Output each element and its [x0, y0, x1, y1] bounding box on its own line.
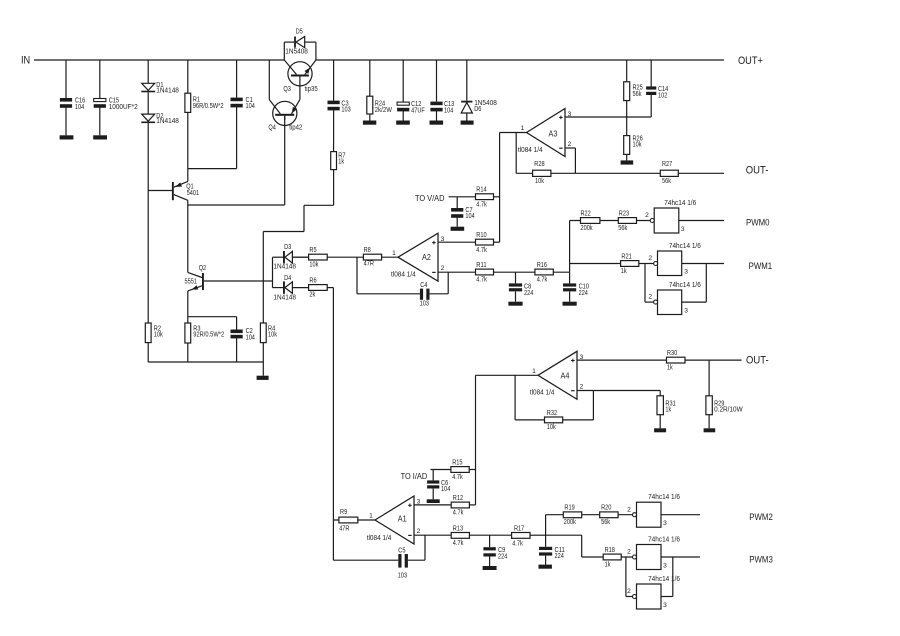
svg-text:2: 2: [627, 549, 631, 556]
ground D6: [461, 121, 474, 125]
ground C15: [93, 135, 107, 139]
wire C15 to ground: [99, 107, 101, 135]
svg-text:3: 3: [417, 499, 421, 506]
svg-text:tl084 1/4: tl084 1/4: [367, 535, 392, 542]
diode D2: [141, 113, 179, 125]
svg-text:200k: 200k: [581, 225, 593, 232]
capacitor C4: [420, 282, 430, 307]
svg-text:2: 2: [441, 265, 445, 272]
svg-text:R28: R28: [534, 161, 544, 168]
wire A2 pin1 row: [292, 256, 398, 258]
wire R24 to ground: [369, 114, 371, 121]
wire C9 to ground: [489, 556, 491, 566]
wire TO V/AD to C7: [456, 197, 458, 208]
ground R31: [654, 428, 666, 432]
svg-text:R14: R14: [476, 187, 486, 194]
wire R6 to A1 column: [327, 287, 333, 289]
wire A1 input column: [332, 288, 334, 561]
svg-text:R22: R22: [581, 210, 591, 217]
svg-text:1k: 1k: [338, 159, 344, 166]
svg-text:1k: 1k: [621, 268, 627, 275]
svg-text:OUT-: OUT-: [746, 165, 769, 177]
svg-text:R11: R11: [476, 262, 486, 269]
inverter U1E PWM3 (74HC14): [627, 536, 680, 569]
svg-text:224: 224: [524, 290, 533, 297]
wire Q1 base node to R2: [147, 191, 149, 324]
wire R29 to ground: [708, 415, 710, 429]
svg-text:2: 2: [580, 384, 584, 391]
wire D5 left leg: [284, 42, 294, 60]
svg-text:tip35: tip35: [305, 86, 318, 93]
wire IN rail to C1: [236, 60, 238, 98]
op-amp A3 plus input mark: [559, 116, 563, 118]
wire C2 to bottom rail: [236, 338, 238, 362]
capacitor C14: [646, 86, 668, 99]
svg-text:TO I/AD: TO I/AD: [401, 472, 428, 481]
svg-text:3: 3: [663, 562, 667, 569]
wire R1 to Q1 emitter node: [187, 112, 189, 168]
svg-text:2: 2: [568, 141, 572, 148]
diode D4: [273, 275, 296, 301]
wire C10 stub: [569, 272, 571, 283]
wire R1-C1 bottom join: [188, 168, 237, 170]
svg-text:D3: D3: [284, 244, 291, 251]
svg-text:R30: R30: [667, 350, 677, 357]
wire R13 to R17: [469, 534, 511, 536]
wire PWM3 parallel input drop: [626, 557, 633, 597]
svg-text:10k: 10k: [268, 332, 277, 339]
op-amp A4 minus input mark: [571, 390, 574, 392]
capacitor C7: [451, 207, 475, 220]
svg-text:103: 103: [398, 572, 407, 579]
op-amp A3: [518, 109, 572, 157]
wire A4 pin3 to OUT-: [577, 359, 742, 361]
ground C7: [451, 227, 465, 231]
resistor R4: [260, 323, 277, 343]
op-amp A2 plus input mark: [432, 242, 436, 244]
svg-text:D4: D4: [284, 275, 291, 282]
wire PWM1 output: [682, 263, 724, 265]
svg-text:R32: R32: [547, 410, 557, 417]
wire IN rail to C16: [65, 60, 67, 98]
capacitor C5: [398, 548, 408, 580]
wire A3 pin1 down to R14/R10: [499, 133, 501, 243]
svg-text:47R: 47R: [364, 261, 374, 268]
svg-text:2: 2: [648, 294, 652, 301]
wire R11 to R16: [494, 271, 535, 273]
wire IN rail to D1: [147, 60, 149, 83]
resistor R5: [309, 247, 328, 268]
transistor Q3: [283, 60, 317, 100]
wire IN rail: [34, 59, 284, 61]
svg-text:56k: 56k: [601, 519, 610, 526]
wire A3 pin1 wire: [500, 132, 527, 134]
svg-text:4.7k: 4.7k: [476, 277, 487, 284]
wire C10 node riser: [569, 221, 571, 273]
wire C11 to ground: [545, 556, 547, 565]
wire Q2 base wire: [204, 280, 273, 282]
wire OUT+ rail to C3: [333, 60, 335, 101]
resistor R16: [535, 262, 553, 283]
wire R7 to R4 node jog: [263, 170, 333, 232]
svg-text:R10: R10: [476, 232, 486, 239]
capacitor C3: [328, 100, 351, 113]
transistor Q1: [172, 169, 199, 205]
svg-text:R13: R13: [453, 525, 463, 532]
svg-text:A1: A1: [398, 514, 407, 524]
svg-text:tip42: tip42: [289, 125, 302, 132]
svg-text:10k: 10k: [309, 261, 318, 268]
wire R10 to A3 vertical: [494, 241, 500, 243]
svg-text:4.7k: 4.7k: [453, 510, 464, 517]
wire C1 to Q1 emitter node: [236, 107, 238, 169]
svg-text:2k: 2k: [309, 292, 315, 299]
svg-text:74hc14 1/6: 74hc14 1/6: [669, 243, 701, 250]
svg-text:4.7k: 4.7k: [453, 540, 464, 547]
resistor R13: [451, 525, 469, 547]
svg-text:2: 2: [648, 255, 652, 262]
wire R22-R23 row: [570, 220, 651, 222]
wire C16 to ground: [65, 107, 67, 135]
svg-text:47R: 47R: [339, 526, 349, 533]
wire OUT+ rail: [316, 59, 724, 61]
capacitor C8: [509, 283, 533, 297]
svg-text:224: 224: [498, 554, 507, 561]
wire OUT+ rail to C13: [436, 60, 438, 102]
wire R32 feedback: [515, 375, 593, 420]
wire C5 feedback bottom: [333, 535, 425, 560]
wire D1 to D2: [147, 92, 149, 114]
svg-text:2: 2: [645, 212, 649, 219]
capacitor C10: [563, 283, 589, 297]
svg-text:R8: R8: [364, 247, 371, 254]
svg-text:1N4148: 1N4148: [156, 118, 179, 125]
resistor R3: [185, 323, 224, 343]
svg-text:200k: 200k: [564, 519, 576, 526]
resistor R23: [618, 210, 636, 232]
wire A3 pin1 to OUT- line: [515, 133, 517, 174]
svg-text:104: 104: [444, 107, 453, 114]
capacitor C1: [231, 97, 255, 110]
svg-text:5551: 5551: [185, 278, 198, 285]
wire A1 pin2 wire: [414, 534, 451, 536]
resistor R9: [339, 509, 358, 533]
svg-text:1: 1: [532, 368, 536, 375]
ground C12: [396, 121, 410, 125]
svg-text:4.7k: 4.7k: [476, 201, 487, 208]
transistor Q2: [185, 265, 207, 291]
svg-text:104: 104: [75, 104, 84, 111]
svg-text:74hc14 1/6: 74hc14 1/6: [664, 200, 696, 207]
svg-text:Q4: Q4: [268, 124, 276, 131]
wire R2 to bottom rail: [147, 343, 149, 362]
diode D6: [461, 100, 497, 113]
svg-text:R12: R12: [453, 495, 463, 502]
wire C8 to ground: [515, 292, 517, 302]
wire bracket to D3: [273, 256, 284, 258]
svg-text:4.7k: 4.7k: [452, 474, 463, 481]
wire A3 pin3 line to R26: [626, 117, 628, 136]
wire R31 stub: [659, 391, 661, 396]
resistor R24: [367, 96, 392, 114]
svg-text:PWM3: PWM3: [749, 554, 773, 564]
inverter U1C PWM1 (74HC14): [648, 282, 700, 315]
wire R17 to C11 node: [530, 534, 546, 536]
svg-text:C4: C4: [420, 282, 427, 289]
resistor R15: [451, 459, 469, 481]
svg-text:R6: R6: [309, 277, 316, 284]
wire PWM0 output: [679, 220, 724, 222]
svg-text:1k: 1k: [665, 407, 671, 414]
svg-text:3: 3: [568, 111, 572, 118]
op-amp A2: [391, 233, 445, 281]
capacitor C2: [231, 328, 255, 341]
op-amp A1: [367, 496, 421, 544]
resistor R25: [624, 82, 643, 101]
svg-text:D6: D6: [474, 106, 481, 113]
wire C8 stub: [515, 272, 517, 283]
svg-text:R15: R15: [452, 459, 462, 466]
wire Q1 collector node to Q2 collector: [187, 205, 189, 272]
wire OUT+ rail to R24: [369, 60, 371, 96]
ground R26: [621, 160, 634, 164]
wire C4 feedback: [357, 257, 448, 294]
resistor R1: [185, 93, 224, 112]
svg-text:92R/0.5W*2: 92R/0.5W*2: [193, 332, 224, 339]
wire R3 to bottom rail: [187, 343, 189, 362]
svg-text:R20: R20: [601, 505, 611, 512]
wire Q1 collector to Q4 base: [188, 116, 285, 205]
svg-text:tl084 1/4: tl084 1/4: [391, 272, 416, 279]
capacitor C11: [539, 547, 565, 560]
svg-text:4.7k: 4.7k: [537, 276, 548, 283]
resistor R20: [600, 505, 618, 527]
svg-text:2: 2: [627, 588, 631, 595]
svg-text:1000UF*2: 1000UF*2: [109, 104, 138, 111]
ground C8: [508, 302, 522, 306]
svg-text:1N4148: 1N4148: [156, 88, 179, 95]
capacitor C6: [427, 480, 450, 493]
svg-text:10k: 10k: [633, 142, 642, 149]
wire A4 pin2 wire: [577, 390, 660, 392]
resistor R32: [545, 410, 563, 431]
svg-text:A2: A2: [422, 252, 431, 262]
svg-text:OUT-: OUT-: [746, 354, 769, 366]
wire D6 to ground: [466, 113, 468, 121]
svg-text:4.7k: 4.7k: [512, 540, 523, 547]
resistor R27: [660, 161, 678, 185]
resistor R19: [563, 505, 581, 527]
svg-text:10k: 10k: [535, 178, 544, 185]
svg-text:104: 104: [246, 103, 255, 110]
svg-text:R9: R9: [340, 509, 347, 516]
op-amp A4: [530, 351, 584, 399]
wire R15 to A4 column: [469, 469, 475, 471]
svg-text:0.2R/10W: 0.2R/10W: [714, 407, 743, 414]
svg-text:R16: R16: [537, 262, 547, 269]
wire C11 node to R18 jog: [546, 535, 633, 557]
inverter U1D PWM2 (74HC14): [627, 494, 680, 527]
wire R14 to A3 vertical: [494, 196, 500, 198]
svg-text:74hc14 1/6: 74hc14 1/6: [648, 576, 680, 583]
svg-text:102: 102: [658, 93, 667, 100]
ground C11: [539, 565, 552, 569]
wire PWM1 parallel input drop: [645, 264, 654, 303]
wire bracket to D4: [273, 287, 284, 289]
ground R29: [704, 428, 716, 432]
svg-text:56k: 56k: [662, 178, 671, 185]
svg-text:10k: 10k: [547, 424, 556, 431]
svg-text:tl084 1/4: tl084 1/4: [530, 390, 555, 397]
resistor R6: [309, 277, 328, 298]
wire R25 to A3 pin3 line: [626, 101, 628, 117]
svg-text:3: 3: [663, 602, 667, 609]
svg-text:TO V/AD: TO V/AD: [415, 194, 445, 203]
wire jog down to R4: [262, 232, 264, 324]
wire R19-R20 row: [546, 514, 633, 516]
ground R24: [363, 121, 376, 125]
svg-text:R19: R19: [564, 505, 574, 512]
svg-text:104: 104: [246, 334, 255, 341]
svg-text:1: 1: [521, 125, 525, 132]
svg-text:1N5408: 1N5408: [285, 48, 308, 55]
svg-text:R5: R5: [309, 247, 316, 254]
wire C13 to ground: [436, 111, 438, 121]
ground C10: [563, 302, 577, 306]
wire D3 to R5: [292, 256, 308, 258]
wire A2 pin2 wire: [438, 271, 476, 273]
wire A4 pin1 wire: [476, 374, 539, 376]
svg-text:103: 103: [420, 300, 429, 307]
wire A4 pin1 down to A1 inputs: [475, 375, 477, 505]
capacitor C13: [430, 101, 454, 114]
ground C13: [430, 121, 444, 125]
wire D5 right leg: [305, 42, 316, 60]
resistor R2: [145, 323, 163, 343]
svg-text:3: 3: [684, 268, 688, 275]
resistor R18: [603, 547, 621, 569]
wire R26 to ground: [626, 154, 628, 160]
svg-text:PWM0: PWM0: [746, 217, 770, 227]
svg-text:Q2: Q2: [199, 265, 207, 272]
op-amp A1 minus input mark: [408, 534, 411, 536]
wire bottom rail: [148, 361, 263, 363]
op-amp A2 minus input mark: [432, 271, 435, 273]
svg-text:R23: R23: [619, 210, 629, 217]
wire PWM1 parallel output tie: [682, 264, 707, 303]
wire R29 stub: [708, 360, 710, 396]
wire bottom rail to ground: [262, 362, 264, 376]
transistor Q4: [268, 60, 302, 132]
svg-text:A4: A4: [561, 370, 570, 380]
svg-text:74hc14 1/6: 74hc14 1/6: [648, 494, 680, 501]
svg-text:R27: R27: [662, 161, 672, 168]
diode D1: [141, 82, 179, 94]
resistor R14: [476, 187, 494, 209]
wire R16 to C10 node: [553, 271, 569, 273]
svg-text:5401: 5401: [187, 190, 200, 197]
svg-text:tl084 1/4: tl084 1/4: [518, 147, 543, 154]
capacitor C9: [483, 547, 507, 560]
svg-text:3: 3: [441, 236, 445, 243]
op-amp A3 minus input mark: [559, 147, 562, 149]
wire A3 pin3 line: [565, 116, 651, 118]
wire C11 riser and stub: [545, 515, 547, 547]
svg-text:PWM2: PWM2: [749, 512, 773, 522]
svg-text:PWM1: PWM1: [749, 261, 773, 271]
svg-text:1N4148: 1N4148: [273, 294, 296, 301]
resistor R21: [621, 253, 639, 274]
resistor R8: [363, 247, 381, 268]
wire OUT+ rail to C12: [402, 60, 404, 102]
svg-text:C5: C5: [398, 548, 405, 555]
wire PWM2 output: [661, 514, 700, 516]
wire R4 to bottom rail: [262, 343, 264, 362]
wire TO I/AD wire: [431, 469, 451, 471]
wire A1 pin3 wire: [414, 504, 451, 506]
svg-text:Q3: Q3: [283, 86, 291, 93]
op-amp A1 plus input mark: [408, 504, 412, 506]
resistor R11: [476, 262, 494, 284]
wire C10 to ground: [569, 292, 571, 302]
svg-text:74hc14 1/6: 74hc14 1/6: [669, 282, 701, 289]
svg-text:2k/2W: 2k/2W: [375, 107, 392, 114]
svg-text:1k: 1k: [667, 365, 673, 372]
wire R21 to inverter: [639, 263, 654, 265]
wire PWM3 output: [661, 556, 700, 558]
resistor R17: [512, 525, 530, 547]
svg-text:96R/0.5W*2: 96R/0.5W*2: [193, 103, 224, 110]
svg-text:224: 224: [579, 290, 588, 297]
wire Q1 base wire: [148, 190, 172, 192]
svg-text:224: 224: [555, 553, 564, 560]
ground C16: [60, 135, 74, 139]
svg-text:103: 103: [341, 107, 350, 114]
svg-text:2: 2: [627, 506, 631, 513]
svg-text:R21: R21: [621, 253, 631, 260]
wire C12 to ground: [402, 111, 404, 121]
svg-text:104: 104: [465, 213, 474, 220]
wire A2 pin3 wire: [438, 241, 476, 243]
svg-text:1: 1: [369, 513, 373, 520]
resistor R26: [624, 135, 643, 154]
resistor R12: [451, 495, 469, 517]
ground C9: [483, 566, 497, 570]
svg-text:1: 1: [392, 250, 396, 257]
wire D3-D4 bracket: [272, 257, 274, 287]
svg-text:3: 3: [684, 307, 688, 314]
svg-text:3: 3: [663, 520, 667, 527]
svg-text:56k: 56k: [618, 225, 627, 232]
wire D2 to Q1 base node: [147, 123, 149, 190]
inverter U1A PWM0 (74HC14): [645, 200, 696, 233]
svg-text:IN: IN: [21, 55, 30, 67]
svg-text:OUT+: OUT+: [738, 55, 763, 67]
wire OUT+ rail to D6: [466, 60, 468, 101]
capacitor C12: [397, 101, 425, 114]
wire R12 to A4 column: [469, 504, 475, 506]
wire R31 to ground: [659, 415, 661, 429]
wire OUT+ rail to R25: [626, 60, 628, 82]
resistor R28: [533, 161, 551, 185]
resistor R10: [476, 232, 494, 254]
resistor R31: [657, 396, 676, 415]
svg-text:104: 104: [441, 486, 450, 493]
svg-text:R18: R18: [605, 547, 615, 554]
wire Q2 emitter to R3: [187, 291, 189, 323]
wire R3-C2 top join: [188, 317, 237, 330]
diode D3: [273, 244, 296, 270]
